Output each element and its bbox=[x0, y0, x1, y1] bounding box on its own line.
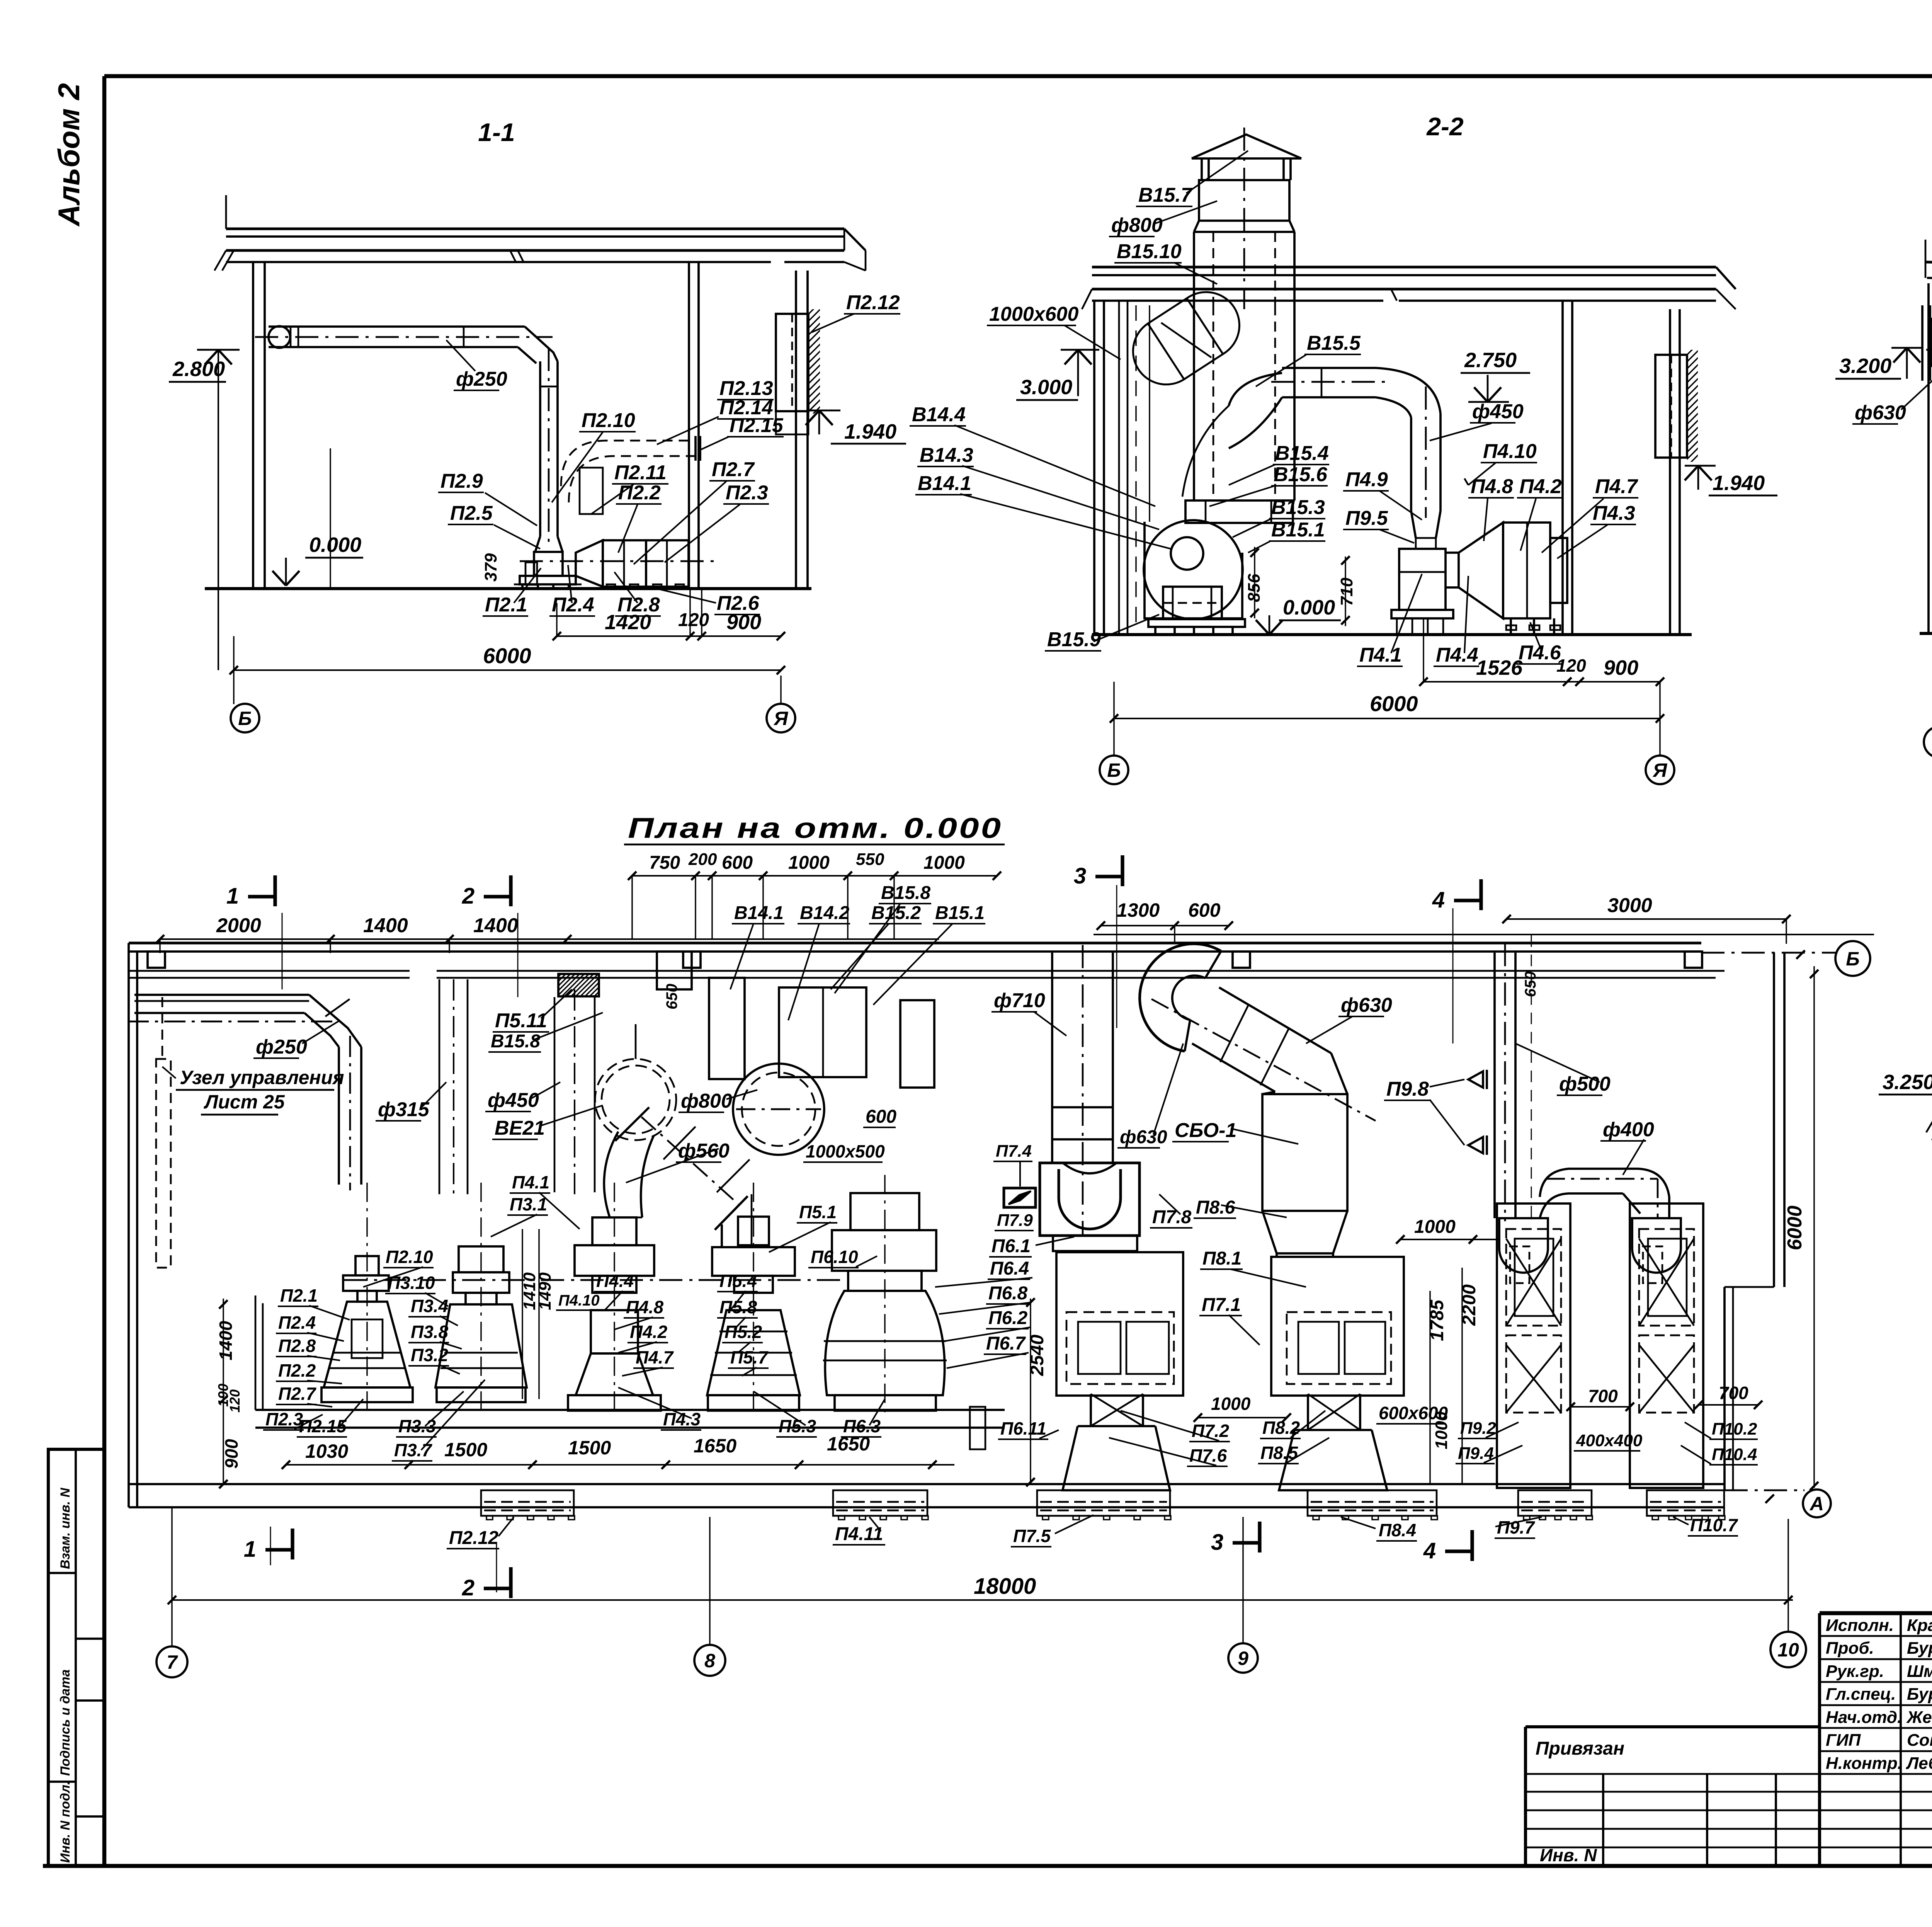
svg-text:П3.3: П3.3 bbox=[398, 1416, 436, 1436]
svg-text:В14.3: В14.3 bbox=[920, 444, 973, 466]
svg-text:П4.3: П4.3 bbox=[1593, 502, 1635, 524]
svg-text:П4.8: П4.8 bbox=[626, 1297, 663, 1317]
svg-text:П5.8: П5.8 bbox=[719, 1297, 757, 1317]
svg-text:П3.10: П3.10 bbox=[388, 1273, 435, 1293]
svg-text:3000: 3000 bbox=[1607, 894, 1652, 917]
svg-text:П6.2: П6.2 bbox=[988, 1308, 1028, 1328]
svg-text:6000: 6000 bbox=[1784, 1205, 1806, 1250]
svg-text:550: 550 bbox=[856, 850, 884, 869]
svg-text:ф630: ф630 bbox=[1120, 1127, 1167, 1147]
svg-text:ГИП: ГИП bbox=[1826, 1731, 1861, 1750]
svg-text:18000: 18000 bbox=[974, 1574, 1036, 1599]
svg-text:В15.10: В15.10 bbox=[1117, 240, 1182, 263]
svg-text:1500: 1500 bbox=[568, 1437, 611, 1459]
svg-text:7: 7 bbox=[167, 1651, 178, 1673]
svg-text:Жевнеров: Жевнеров bbox=[1906, 1708, 1932, 1727]
svg-text:Нач.отд.: Нач.отд. bbox=[1826, 1708, 1902, 1727]
svg-text:П4.11: П4.11 bbox=[835, 1524, 883, 1544]
svg-text:П4.2: П4.2 bbox=[1519, 475, 1562, 498]
svg-text:В14.4: В14.4 bbox=[912, 403, 966, 426]
svg-text:Взам. инв. N: Взам. инв. N bbox=[58, 1487, 73, 1569]
svg-text:П2.15: П2.15 bbox=[730, 414, 784, 437]
svg-text:ф315: ф315 bbox=[378, 1098, 430, 1121]
svg-text:ф710: ф710 bbox=[994, 989, 1045, 1012]
svg-text:ВЕ21: ВЕ21 bbox=[495, 1117, 545, 1139]
svg-text:700: 700 bbox=[1719, 1383, 1748, 1403]
svg-text:0.000: 0.000 bbox=[1283, 596, 1335, 619]
svg-text:П5.4: П5.4 bbox=[719, 1271, 757, 1291]
svg-text:Гл.спец.: Гл.спец. bbox=[1826, 1685, 1896, 1704]
svg-text:П3.1: П3.1 bbox=[510, 1194, 547, 1214]
svg-text:6000: 6000 bbox=[483, 643, 531, 668]
svg-text:П2.2: П2.2 bbox=[618, 482, 661, 504]
svg-text:2-2: 2-2 bbox=[1426, 112, 1464, 141]
svg-text:900: 900 bbox=[1604, 656, 1638, 679]
svg-text:1650: 1650 bbox=[694, 1435, 736, 1457]
svg-text:П3.2: П3.2 bbox=[411, 1345, 448, 1365]
svg-text:П2.8: П2.8 bbox=[617, 594, 660, 616]
svg-text:П4.2: П4.2 bbox=[630, 1322, 667, 1342]
svg-text:9: 9 bbox=[1238, 1648, 1248, 1669]
svg-text:Инв. N: Инв. N bbox=[1540, 1845, 1597, 1865]
svg-text:П9.7: П9.7 bbox=[1497, 1517, 1535, 1537]
svg-text:ф630: ф630 bbox=[1341, 994, 1392, 1016]
svg-text:П4.3: П4.3 bbox=[663, 1409, 701, 1429]
svg-text:1500: 1500 bbox=[444, 1439, 487, 1461]
svg-text:В15.3: В15.3 bbox=[1271, 496, 1325, 519]
svg-text:СБО-1: СБО-1 bbox=[1175, 1119, 1236, 1142]
svg-text:750: 750 bbox=[649, 853, 680, 873]
svg-text:1000: 1000 bbox=[788, 853, 830, 873]
svg-text:ф500: ф500 bbox=[1559, 1073, 1611, 1095]
svg-text:Инв. N подл.: Инв. N подл. bbox=[58, 1781, 73, 1863]
svg-text:Я: Я bbox=[1652, 759, 1668, 781]
svg-text:Рук.гр.: Рук.гр. bbox=[1826, 1662, 1884, 1681]
svg-text:П9.8: П9.8 bbox=[1386, 1078, 1429, 1100]
svg-text:П7.6: П7.6 bbox=[1189, 1445, 1227, 1466]
svg-text:Бурцев: Бурцев bbox=[1907, 1685, 1932, 1704]
svg-text:П6.7: П6.7 bbox=[986, 1333, 1026, 1354]
svg-text:1-1: 1-1 bbox=[478, 118, 515, 146]
svg-text:Проб.: Проб. bbox=[1826, 1639, 1874, 1658]
svg-text:План на отм. 0.000: План на отм. 0.000 bbox=[628, 812, 1003, 844]
svg-text:200: 200 bbox=[688, 850, 717, 869]
svg-text:П2.4: П2.4 bbox=[278, 1312, 316, 1333]
svg-text:П2.3: П2.3 bbox=[726, 482, 768, 504]
svg-text:1000: 1000 bbox=[1211, 1394, 1251, 1414]
svg-text:400х400: 400х400 bbox=[1576, 1431, 1643, 1450]
svg-text:1000х600: 1000х600 bbox=[989, 303, 1078, 325]
svg-text:П7.5: П7.5 bbox=[1013, 1526, 1051, 1546]
svg-text:120: 120 bbox=[678, 610, 709, 630]
svg-text:П10.7: П10.7 bbox=[1690, 1515, 1738, 1535]
svg-text:П7.4: П7.4 bbox=[996, 1142, 1032, 1161]
svg-text:П2.7: П2.7 bbox=[278, 1384, 316, 1404]
svg-text:ф250: ф250 bbox=[256, 1036, 307, 1058]
svg-text:Н.контр.: Н.контр. bbox=[1826, 1754, 1902, 1773]
svg-text:П4.8: П4.8 bbox=[1471, 475, 1513, 498]
svg-text:2: 2 bbox=[462, 1575, 474, 1600]
svg-text:600: 600 bbox=[722, 853, 753, 873]
svg-text:П2.4: П2.4 bbox=[552, 594, 594, 616]
svg-text:В15.8: В15.8 bbox=[491, 1031, 540, 1052]
svg-text:3.000: 3.000 bbox=[1020, 376, 1072, 399]
svg-text:600: 600 bbox=[866, 1106, 896, 1127]
svg-text:1400: 1400 bbox=[216, 1321, 236, 1360]
svg-text:Лист 25: Лист 25 bbox=[204, 1091, 285, 1113]
svg-text:6000: 6000 bbox=[1370, 691, 1418, 716]
svg-text:П2.3: П2.3 bbox=[265, 1409, 303, 1429]
svg-text:П7.9: П7.9 bbox=[997, 1211, 1033, 1230]
svg-text:Бурцев: Бурцев bbox=[1907, 1639, 1932, 1658]
svg-text:Б: Б bbox=[1107, 759, 1121, 781]
svg-text:650: 650 bbox=[1522, 971, 1539, 997]
svg-text:П5.7: П5.7 bbox=[730, 1347, 769, 1367]
svg-text:379: 379 bbox=[481, 553, 500, 582]
svg-text:Узел управления: Узел управления bbox=[180, 1067, 344, 1088]
svg-text:1300: 1300 bbox=[1117, 899, 1160, 921]
svg-text:П6.4: П6.4 bbox=[990, 1258, 1029, 1279]
svg-text:П2.2: П2.2 bbox=[278, 1360, 316, 1381]
svg-text:П2.11: П2.11 bbox=[614, 461, 667, 484]
svg-text:Исполн.: Исполн. bbox=[1826, 1616, 1894, 1635]
svg-text:П7.8: П7.8 bbox=[1152, 1207, 1192, 1227]
svg-text:П4.7: П4.7 bbox=[636, 1347, 674, 1367]
svg-text:Лебская: Лебская bbox=[1906, 1754, 1932, 1773]
svg-text:2.750: 2.750 bbox=[1464, 349, 1517, 372]
svg-text:ф800: ф800 bbox=[681, 1090, 732, 1112]
svg-text:600: 600 bbox=[1188, 899, 1221, 921]
svg-text:ф560: ф560 bbox=[678, 1140, 730, 1162]
svg-text:П6.8: П6.8 bbox=[988, 1283, 1028, 1304]
svg-text:П6.11: П6.11 bbox=[1000, 1418, 1046, 1438]
svg-text:П8.6: П8.6 bbox=[1196, 1197, 1235, 1218]
svg-text:П9.5: П9.5 bbox=[1345, 507, 1388, 529]
svg-text:Шматкова: Шматкова bbox=[1907, 1662, 1932, 1681]
svg-text:П10.2: П10.2 bbox=[1712, 1420, 1757, 1438]
svg-text:1000: 1000 bbox=[1414, 1217, 1456, 1237]
svg-text:П4.1: П4.1 bbox=[512, 1172, 549, 1192]
svg-text:ф630: ф630 bbox=[1855, 402, 1906, 424]
svg-text:1: 1 bbox=[226, 883, 239, 909]
svg-text:1000х500: 1000х500 bbox=[806, 1141, 885, 1161]
svg-text:П2.5: П2.5 bbox=[450, 502, 493, 524]
svg-text:П7.1: П7.1 bbox=[1202, 1295, 1241, 1315]
svg-text:4: 4 bbox=[1423, 1538, 1436, 1563]
svg-text:А: А bbox=[1809, 1493, 1824, 1515]
svg-text:ф250: ф250 bbox=[456, 368, 507, 390]
svg-text:В15.2: В15.2 bbox=[871, 903, 921, 923]
svg-text:Б: Б bbox=[238, 708, 252, 729]
svg-text:П8.4: П8.4 bbox=[1379, 1520, 1416, 1540]
svg-text:П6.1: П6.1 bbox=[992, 1236, 1031, 1256]
svg-text:П2.10: П2.10 bbox=[386, 1247, 433, 1267]
svg-text:ф800: ф800 bbox=[1111, 214, 1163, 237]
svg-text:П5.2: П5.2 bbox=[724, 1322, 762, 1342]
svg-text:Альбом 2: Альбом 2 bbox=[52, 83, 86, 227]
svg-text:1.940: 1.940 bbox=[1713, 472, 1765, 495]
svg-text:ф450: ф450 bbox=[488, 1089, 539, 1112]
svg-text:2000: 2000 bbox=[216, 914, 261, 937]
svg-text:П4.10: П4.10 bbox=[1483, 440, 1537, 463]
svg-text:3: 3 bbox=[1211, 1530, 1223, 1555]
svg-text:П2.9: П2.9 bbox=[440, 470, 483, 492]
svg-text:1030: 1030 bbox=[305, 1440, 348, 1462]
svg-text:900: 900 bbox=[221, 1439, 241, 1469]
svg-text:1400: 1400 bbox=[363, 914, 408, 937]
svg-text:П4.4: П4.4 bbox=[596, 1271, 634, 1291]
svg-text:В15.6: В15.6 bbox=[1274, 463, 1328, 486]
svg-text:Соколовский: Соколовский bbox=[1907, 1731, 1932, 1750]
svg-text:П4.7: П4.7 bbox=[1595, 475, 1638, 498]
svg-text:2.800: 2.800 bbox=[172, 357, 225, 381]
svg-text:3: 3 bbox=[1074, 863, 1086, 889]
svg-text:ф400: ф400 bbox=[1603, 1118, 1654, 1141]
svg-text:П4.9: П4.9 bbox=[1345, 468, 1388, 491]
svg-text:П5.11: П5.11 bbox=[495, 1009, 547, 1032]
svg-text:700: 700 bbox=[1588, 1386, 1618, 1406]
svg-text:П3.8: П3.8 bbox=[411, 1322, 448, 1342]
svg-text:П2.6: П2.6 bbox=[717, 592, 760, 615]
svg-text:1400: 1400 bbox=[473, 914, 518, 937]
svg-text:П2.8: П2.8 bbox=[278, 1336, 316, 1356]
svg-text:В15.9: В15.9 bbox=[1047, 628, 1101, 651]
svg-text:1: 1 bbox=[244, 1537, 256, 1562]
svg-text:1000: 1000 bbox=[923, 853, 965, 873]
svg-text:1526: 1526 bbox=[1476, 656, 1523, 679]
svg-text:Привязан: Привязан bbox=[1536, 1738, 1624, 1759]
svg-text:П4.1: П4.1 bbox=[1359, 644, 1402, 666]
svg-text:120: 120 bbox=[227, 1389, 243, 1413]
svg-text:В14.1: В14.1 bbox=[734, 903, 784, 923]
svg-text:П2.1: П2.1 bbox=[280, 1285, 318, 1306]
svg-text:Б: Б bbox=[1846, 948, 1859, 970]
svg-text:В15.8: В15.8 bbox=[881, 883, 930, 903]
svg-text:П2.10: П2.10 bbox=[582, 409, 635, 432]
svg-text:В14.2: В14.2 bbox=[800, 903, 849, 923]
svg-text:2: 2 bbox=[462, 883, 474, 909]
svg-text:В15.1: В15.1 bbox=[1271, 519, 1325, 541]
svg-text:П4.10: П4.10 bbox=[558, 1292, 600, 1309]
svg-text:В14.1: В14.1 bbox=[918, 472, 971, 495]
svg-text:8: 8 bbox=[704, 1650, 715, 1672]
svg-text:П6.3: П6.3 bbox=[843, 1416, 881, 1436]
svg-text:710: 710 bbox=[1337, 577, 1356, 606]
svg-text:П2.15: П2.15 bbox=[299, 1416, 347, 1436]
svg-text:П4.4: П4.4 bbox=[1436, 644, 1478, 666]
svg-text:4: 4 bbox=[1432, 887, 1445, 912]
svg-text:600х600: 600х600 bbox=[1379, 1403, 1448, 1423]
svg-text:В15.5: В15.5 bbox=[1307, 332, 1361, 354]
svg-text:0.000: 0.000 bbox=[309, 533, 361, 557]
svg-text:В15.7: В15.7 bbox=[1138, 184, 1193, 206]
svg-text:В15.1: В15.1 bbox=[935, 903, 985, 923]
svg-text:П2.12: П2.12 bbox=[846, 291, 900, 314]
svg-text:10: 10 bbox=[1777, 1639, 1799, 1661]
svg-text:П6.10: П6.10 bbox=[811, 1247, 858, 1267]
svg-text:В15.4: В15.4 bbox=[1275, 442, 1329, 465]
svg-text:П2.7: П2.7 bbox=[712, 458, 755, 481]
svg-text:Подпись и дата: Подпись и дата bbox=[58, 1669, 73, 1776]
svg-text:П3.4: П3.4 bbox=[411, 1296, 448, 1316]
svg-text:П10.4: П10.4 bbox=[1712, 1445, 1757, 1464]
svg-text:650: 650 bbox=[663, 984, 680, 1009]
svg-text:П2.1: П2.1 bbox=[485, 594, 527, 616]
svg-text:Кравченко: Кравченко bbox=[1907, 1616, 1932, 1635]
svg-text:Я: Я bbox=[773, 708, 789, 729]
svg-text:1.940: 1.940 bbox=[844, 420, 896, 443]
svg-text:3.200: 3.200 bbox=[1839, 354, 1891, 378]
svg-text:ф450: ф450 bbox=[1472, 400, 1524, 423]
svg-text:П8.1: П8.1 bbox=[1202, 1248, 1242, 1269]
svg-text:3.250: 3.250 bbox=[1883, 1071, 1932, 1094]
svg-text:П2.12: П2.12 bbox=[449, 1528, 498, 1548]
svg-text:П5.1: П5.1 bbox=[799, 1202, 837, 1222]
